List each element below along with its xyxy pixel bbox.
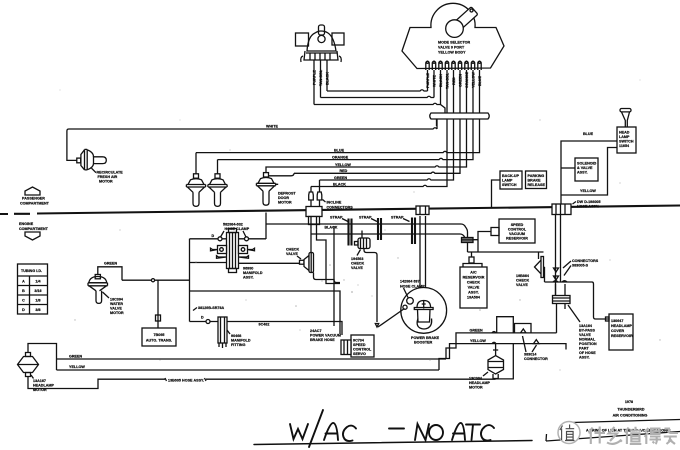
svg-text:CHECK: CHECK (516, 279, 529, 283)
svg-text:FRESH AIR: FRESH AIR (98, 175, 118, 179)
svg-text:BACK-UP: BACK-UP (502, 174, 520, 178)
svg-text:90468: 90468 (231, 334, 241, 338)
svg-text:CHECK: CHECK (467, 281, 480, 285)
svg-text:COMPARTMENT: COMPARTMENT (20, 202, 50, 206)
svg-text:YELLOW: YELLOW (472, 72, 476, 88)
svg-text:RECIRCULATE: RECIRCULATE (97, 171, 124, 175)
svg-text:ASSY.: ASSY. (577, 171, 588, 175)
svg-text:SOLENOID: SOLENOID (577, 162, 597, 166)
svg-text:YELLOW: YELLOW (335, 163, 351, 167)
svg-text:THUNDERBIRD: THUNDERBIRD (617, 408, 644, 412)
svg-text:1/4: 1/4 (35, 280, 40, 284)
svg-text:19A564: 19A564 (467, 296, 480, 300)
svg-text:POWER VACUUM: POWER VACUUM (310, 334, 341, 338)
svg-text:582984-632: 582984-632 (223, 223, 243, 227)
svg-text:VACUUM: VACUUM (509, 232, 525, 236)
svg-text:GREEN: GREEN (104, 262, 117, 266)
svg-text:DOOR: DOOR (278, 196, 289, 200)
svg-text:9C734: 9C734 (353, 339, 364, 343)
svg-text:PARKING: PARKING (528, 174, 545, 178)
svg-text:INCLINE: INCLINE (327, 201, 342, 205)
svg-text:RELEASE: RELEASE (528, 183, 546, 187)
svg-text:VALVE: VALVE (516, 283, 528, 287)
svg-text:CONNECTORS: CONNECTORS (327, 206, 354, 210)
svg-text:19B864: 19B864 (516, 274, 529, 278)
svg-text:CHECK: CHECK (351, 262, 364, 266)
svg-text:13A164: 13A164 (579, 324, 592, 328)
svg-text:142984 637: 142984 637 (400, 280, 420, 284)
svg-text:11654: 11654 (619, 144, 629, 148)
svg-text:MOTOR: MOTOR (469, 386, 483, 390)
svg-text:POWER BRAKE: POWER BRAKE (411, 336, 440, 340)
svg-text:RESERVOIR: RESERVOIR (611, 334, 633, 338)
svg-text:C: C (22, 299, 25, 303)
svg-text:1/8: 1/8 (35, 299, 40, 303)
svg-text:MOTOR: MOTOR (99, 180, 113, 184)
svg-text:GREEN: GREEN (459, 74, 463, 87)
svg-text:13B605 HOSE ASSY.: 13B605 HOSE ASSY. (168, 379, 204, 383)
svg-text:LAMP: LAMP (619, 135, 630, 139)
svg-text:13C004: 13C004 (469, 377, 482, 381)
svg-text:TUBING I.D.: TUBING I.D. (21, 269, 42, 273)
svg-text:A/C: A/C (470, 271, 477, 275)
svg-text:OF HOSE: OF HOSE (579, 351, 596, 355)
svg-text:BLUE: BLUE (583, 132, 594, 136)
svg-text:CONNECTORS: CONNECTORS (572, 259, 599, 263)
svg-text:WHITE: WHITE (266, 125, 278, 129)
svg-text:13A167: 13A167 (33, 379, 46, 383)
svg-text:9C482: 9C482 (259, 323, 270, 327)
svg-text:RESERVOIR: RESERVOIR (506, 237, 528, 241)
svg-text:D: D (201, 316, 204, 320)
svg-text:ORANGE: ORANGE (465, 71, 469, 88)
svg-text:130647: 130647 (611, 319, 623, 323)
svg-text:MANIFOLD: MANIFOLD (243, 271, 263, 275)
svg-text:194563: 194563 (351, 257, 363, 261)
svg-text:NORMAL: NORMAL (579, 338, 596, 342)
svg-text:GREEN: GREEN (334, 176, 347, 180)
svg-text:PART: PART (579, 347, 590, 351)
svg-text:7B095: 7B095 (154, 333, 165, 337)
svg-text:VALVE: VALVE (110, 307, 122, 311)
svg-text:RED: RED (452, 77, 456, 85)
svg-text:GREEN: GREEN (69, 355, 82, 359)
svg-text:VALVE: VALVE (468, 286, 480, 290)
svg-text:SPEED: SPEED (511, 223, 524, 227)
svg-text:ASSY.: ASSY. (468, 291, 479, 295)
svg-text:WATER: WATER (110, 302, 123, 306)
svg-text:MOTOR: MOTOR (278, 201, 292, 205)
svg-text:HOSE ASSY.: HOSE ASSY. (577, 205, 599, 209)
svg-text:VALVE: VALVE (579, 333, 591, 337)
svg-text:HEADLAMP: HEADLAMP (33, 384, 54, 388)
svg-text:24AC7: 24AC7 (310, 329, 322, 333)
svg-text:WHITE: WHITE (433, 75, 437, 87)
svg-text:3/8: 3/8 (35, 308, 40, 312)
svg-text:1978: 1978 (625, 400, 633, 404)
svg-text:VALVE: VALVE (351, 266, 363, 270)
svg-text:ASSY.: ASSY. (579, 356, 590, 360)
svg-text:DEFROST: DEFROST (278, 192, 296, 196)
svg-text:VALVE: VALVE (286, 252, 298, 256)
svg-text:BRAKE HOSE: BRAKE HOSE (310, 338, 335, 342)
svg-text:COMPARTMENT: COMPARTMENT (19, 227, 49, 231)
svg-text:SWITCH: SWITCH (502, 183, 517, 187)
svg-text:BOOSTER: BOOSTER (414, 341, 433, 345)
svg-text:COVER: COVER (611, 329, 624, 333)
svg-text:MANIFOLD: MANIFOLD (231, 339, 251, 343)
svg-text:AIR CONDITIONING: AIR CONDITIONING (613, 414, 648, 418)
svg-text:ASSY.: ASSY. (243, 276, 254, 280)
svg-text:BLUE: BLUE (334, 148, 345, 152)
svg-text:STRAP: STRAP (391, 216, 404, 220)
svg-text:STRAP: STRAP (330, 216, 343, 220)
svg-text:YELLOW: YELLOW (470, 339, 486, 343)
svg-text:AUTO. TRANS.: AUTO. TRANS. (146, 339, 172, 343)
svg-text:D: D (212, 234, 215, 238)
svg-text:DW D-198005: DW D-198005 (577, 200, 601, 204)
svg-text:BLACK: BLACK (326, 72, 330, 85)
svg-text:D: D (22, 308, 25, 312)
svg-text:BY-PASS: BY-PASS (579, 329, 596, 333)
svg-text:YELLOW: YELLOW (580, 189, 596, 193)
svg-text:ENGINE: ENGINE (19, 222, 34, 226)
svg-text:HEADLAMP: HEADLAMP (611, 324, 632, 328)
svg-text:PASSENGER: PASSENGER (22, 197, 45, 201)
svg-text:A: A (22, 280, 25, 284)
svg-text:RED: RED (340, 169, 348, 173)
svg-text:PURPLE: PURPLE (313, 69, 317, 85)
svg-text:CONNECTOR: CONNECTOR (524, 357, 548, 361)
svg-text:LAMP: LAMP (502, 179, 513, 183)
svg-text:SWITCH: SWITCH (619, 140, 634, 144)
svg-text:MODE SELECTOR: MODE SELECTOR (438, 41, 471, 45)
svg-text:HEAD: HEAD (619, 131, 630, 135)
svg-text:YELLOW BODY: YELLOW BODY (438, 51, 466, 55)
svg-text:18C394: 18C394 (110, 298, 123, 302)
svg-text:383005-S: 383005-S (572, 264, 589, 268)
svg-text:SERVO: SERVO (353, 352, 366, 356)
svg-text:BLACK: BLACK (325, 226, 338, 230)
svg-text:CONTROL: CONTROL (508, 228, 527, 232)
svg-text:BRAKE: BRAKE (528, 179, 542, 183)
svg-text:YELLOW: YELLOW (69, 365, 85, 369)
svg-text:GREEN: GREEN (470, 328, 483, 332)
svg-text:MOTOR: MOTOR (110, 311, 124, 315)
svg-text:SPEED: SPEED (353, 343, 366, 347)
svg-text:38129B-SR78A: 38129B-SR78A (198, 306, 225, 310)
svg-text:BLACK: BLACK (439, 74, 443, 87)
svg-text:B: B (22, 289, 25, 293)
svg-text:CONTROL: CONTROL (353, 348, 372, 352)
svg-text:3/16: 3/16 (34, 289, 41, 293)
svg-text:BLUE: BLUE (478, 75, 482, 86)
svg-text:PURPLE: PURPLE (426, 72, 430, 88)
svg-text:TAN-DBL: TAN-DBL (446, 72, 450, 89)
svg-text:ORANGE: ORANGE (332, 155, 349, 159)
svg-text:POSITION: POSITION (579, 342, 597, 346)
svg-text:HEADLAMP: HEADLAMP (469, 381, 490, 385)
svg-text:RESERVOIR: RESERVOIR (463, 276, 485, 280)
svg-text:CHECK: CHECK (286, 248, 299, 252)
svg-text:FITTING: FITTING (231, 343, 246, 347)
svg-text:BLACK: BLACK (333, 182, 346, 186)
svg-text:96990: 96990 (243, 267, 253, 271)
svg-text:VALVE 9 PORT: VALVE 9 PORT (438, 46, 465, 50)
svg-text:383014: 383014 (524, 353, 536, 357)
svg-text:& VALVE: & VALVE (577, 166, 593, 170)
svg-text:STRAP: STRAP (359, 216, 372, 220)
svg-text:TAN-DBL: TAN-DBL (319, 69, 323, 86)
